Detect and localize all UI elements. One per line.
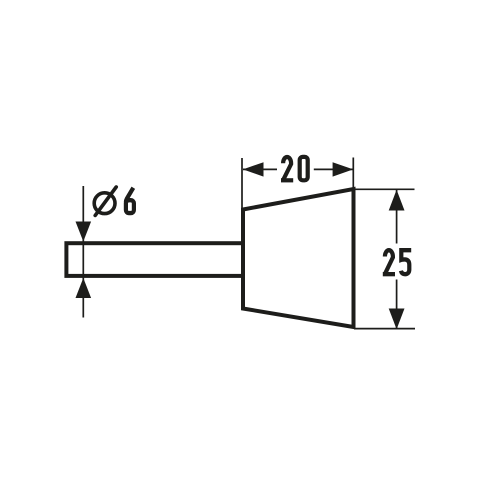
dimension line 25 lower segment [396, 280, 398, 330]
arrow left (20 dim) [243, 162, 264, 176]
arrow up (bottom of shaft) [76, 278, 92, 298]
extension line right (20 dim) [352, 158, 354, 192]
diameter symbol slash [95, 187, 116, 215]
dimension line 25 upper segment [396, 190, 398, 244]
extension line bottom (25 dim) [354, 328, 415, 330]
extension line top (25 dim) [354, 188, 415, 190]
dimension line 20 left segment [243, 168, 277, 170]
cone body (grinding head) [243, 189, 354, 327]
arrow down (25 dim) [389, 309, 405, 330]
diameter symbol circle [94, 193, 115, 214]
arrow up (25 dim) [389, 190, 405, 211]
label 20 [281, 157, 293, 180]
dimension line 20 right segment [314, 168, 353, 170]
extension line left (20 dim) [241, 158, 243, 209]
label 25 [383, 250, 411, 274]
arrow right (20 dim) [333, 162, 354, 176]
shaft (shank) [66, 243, 243, 276]
label 6 [126, 188, 134, 213]
arrow down (top of shaft) [76, 222, 92, 242]
dimension line diameter 6 (vertical through shaft) [82, 186, 84, 318]
